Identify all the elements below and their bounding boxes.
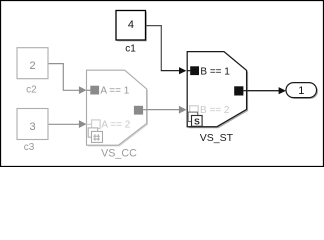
constant block c1 (value 4) [116,11,146,41]
VS_ST badge back square [188,112,198,121]
variant source VS_ST shadow [189,53,248,128]
svg-text:c3: c3 [24,142,35,153]
outport 1 shadow [287,84,318,99]
svg-text:1: 1 [298,85,304,97]
svg-text:c1: c1 [125,43,136,54]
VS_ST port1 stub [187,70,190,72]
VS_CC output port marker [134,106,143,115]
svg-text:A == 1: A == 1 [100,86,129,97]
VS_CC badge back square [88,128,98,137]
VS_CC port2 marker [92,120,101,128]
svg-text:B == 1: B == 1 [200,66,230,77]
VS_CC port2 stub [87,123,92,125]
svg-text:S: S [194,116,200,126]
svg-text:3: 3 [30,121,36,133]
VS_CC port1 stub [87,89,91,91]
wire c3 to VS_CC port2 [49,120,87,128]
svg-text:4: 4 [128,19,134,31]
canvas border [1,1,324,167]
outport block 1 [286,83,317,98]
svg-text:B == 2: B == 2 [200,105,230,116]
VS_ST output stub [243,90,246,92]
VS_ST port1 marker [190,66,199,75]
wire VS_ST to outport [247,87,286,94]
wire VS_CC to VS_ST port2 [147,106,187,114]
svg-text:c2: c2 [26,84,37,95]
wire c1 to VS_ST port1 [146,26,187,75]
canvas background [0,0,324,167]
VS_ST badge front square with S [192,116,203,127]
constant block c1 shadow [117,12,146,42]
VS_ST port2 marker [190,106,199,115]
variant source VS_CC shadow [88,72,148,147]
VS_ST output port marker [234,86,243,95]
constant block c3 (value 3) [17,109,48,140]
svg-text:VS_CC: VS_CC [101,147,137,159]
svg-text:A == 2: A == 2 [101,120,130,131]
VS_CC badge front square with grid symbol [92,131,103,142]
constant block c2 (value 2) [17,48,48,79]
svg-text:VS_ST: VS_ST [200,132,234,144]
wire c2 to VS_CC port1 [49,64,87,94]
svg-text:2: 2 [30,60,36,72]
variant source VS_ST body [187,52,246,127]
variant source VS_CC body [87,70,147,145]
VS_CC port1 marker [90,86,99,95]
VS_CC output stub [143,109,147,111]
